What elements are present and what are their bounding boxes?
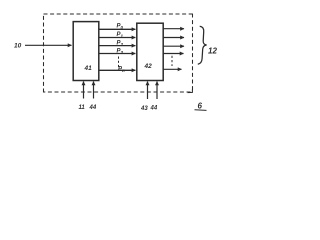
svg-text:P1: P1 xyxy=(117,32,124,39)
svg-text:12: 12 xyxy=(208,47,217,56)
svg-text:43: 43 xyxy=(140,106,148,112)
svg-text:41: 41 xyxy=(84,65,93,72)
svg-text:42: 42 xyxy=(144,63,153,70)
svg-text:44: 44 xyxy=(89,105,97,111)
svg-text:44: 44 xyxy=(150,106,158,112)
svg-text:P0: P0 xyxy=(117,23,124,30)
svg-text:6: 6 xyxy=(198,102,203,111)
svg-text:P3: P3 xyxy=(117,48,124,55)
svg-text:P2: P2 xyxy=(117,40,124,47)
svg-text:10: 10 xyxy=(14,43,22,50)
svg-text:11: 11 xyxy=(79,105,86,111)
svg-text:Pn: Pn xyxy=(118,67,125,74)
